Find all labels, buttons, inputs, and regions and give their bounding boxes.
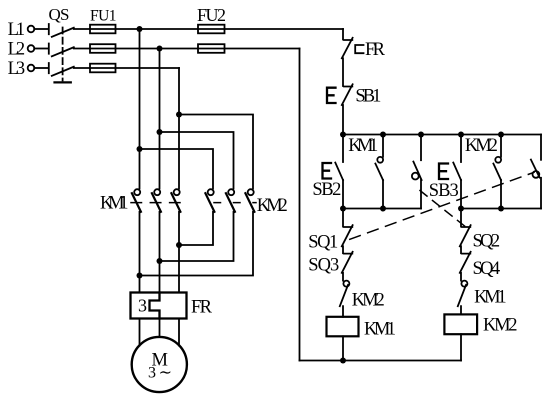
wire motor lead 2 — [159, 319, 161, 338]
switch QS pole 3 — [49, 63, 74, 76]
node crossover p3 — [176, 112, 182, 118]
SB1 actuator E — [327, 88, 336, 103]
svg-text:L3: L3 — [8, 59, 26, 79]
svg-text:KM2: KM2 — [483, 316, 518, 336]
limit switch SQ3 NC contact — [342, 252, 353, 281]
contactor KM2 main contact 2 — [226, 189, 235, 212]
pushbutton SB2 NO branch — [342, 135, 344, 163]
wire L3 row — [74, 67, 179, 69]
svg-text:KM1: KM1 — [348, 136, 378, 156]
limit switch SQ1 NO contact — [531, 160, 541, 209]
wire crossover top to KM2 contact b — [160, 132, 234, 189]
terminal L2 — [28, 45, 35, 52]
wire L2 row — [74, 48, 300, 50]
mechanical link dashed SQ1 — [350, 172, 534, 239]
contact KM2 aux NO — [493, 135, 501, 209]
terminal L1 — [28, 26, 35, 33]
svg-text:3∼: 3∼ — [148, 365, 172, 382]
wire L2 terminal to QS — [34, 48, 48, 50]
wire main drop phase3 — [178, 68, 180, 189]
mechanical link dashed SQ2 — [420, 191, 465, 227]
svg-text:KM1: KM1 — [364, 320, 396, 340]
SB3 actuator E — [439, 164, 448, 180]
svg-text:FU2: FU2 — [197, 5, 226, 25]
wire motor lead 1 — [139, 319, 141, 346]
svg-text:3: 3 — [138, 296, 147, 316]
wire below KM1 contact 2 — [159, 212, 161, 293]
wire below KM1 contact 1 — [139, 212, 141, 293]
node lower p2 — [157, 258, 163, 264]
contactor KM1 main contact 2 — [152, 189, 161, 212]
svg-text:KM2: KM2 — [465, 136, 498, 156]
wire bus corner down right — [540, 135, 542, 160]
contactor KM2 main contact 1 — [205, 189, 214, 212]
pushbutton SB3 NO branch — [460, 135, 462, 163]
node right section a — [458, 206, 464, 212]
node right section b — [498, 206, 504, 212]
node bus 3 — [418, 132, 424, 138]
switch QS pole 2 — [49, 44, 74, 57]
wire crossover bottom KM2 c — [140, 212, 254, 276]
wire FR to SB1 — [342, 58, 344, 86]
wire main drop phase2 — [159, 49, 161, 189]
QS linkage dashed — [62, 28, 64, 81]
interlock KM2 NC contact — [340, 281, 350, 317]
svg-text:KM2: KM2 — [257, 196, 288, 216]
wire SB1 to bus — [342, 105, 344, 135]
svg-text:SQ4: SQ4 — [473, 259, 501, 279]
fuse FU2 phase1 — [198, 25, 225, 34]
wire crossover bottom KM2 a — [179, 212, 213, 245]
node lower p3 — [176, 242, 182, 248]
SB2 actuator E — [323, 163, 332, 179]
motor M circle — [132, 337, 187, 392]
contact KM1 aux NO — [375, 135, 383, 209]
svg-text:L1: L1 — [8, 20, 26, 40]
control left rail from L2 — [299, 49, 301, 361]
SB2 contact blade — [335, 163, 343, 180]
pushbutton SB1 NC — [342, 84, 353, 105]
wire main drop phase1 — [139, 29, 141, 189]
thermal relay FR heater box — [131, 293, 187, 319]
wire SB2 to node — [342, 180, 344, 209]
svg-text:KM1: KM1 — [474, 288, 507, 308]
control bus wire — [343, 134, 541, 136]
wire KM1 coil to rail — [342, 336, 344, 360]
wire control feed down from L1 — [342, 29, 344, 40]
fuse FU1 phase3 — [90, 64, 116, 73]
switch QS pole 1 — [49, 24, 74, 37]
node bus 2 — [380, 132, 386, 138]
node left section a — [340, 206, 346, 212]
svg-text:SQ2: SQ2 — [473, 232, 501, 252]
svg-text:L2: L2 — [8, 40, 26, 60]
junction dots main — [137, 26, 183, 279]
coil KM1 — [327, 317, 359, 337]
limit switch SQ2 NO contact — [412, 135, 422, 209]
contactor KM1 main contact 3 — [171, 189, 180, 212]
wire crossover bottom KM2 b — [160, 212, 234, 261]
FR NC contact — [342, 38, 353, 59]
KM2 main linkage dashed — [214, 202, 256, 204]
svg-text:KM1: KM1 — [100, 194, 129, 214]
svg-text:FU1: FU1 — [90, 7, 117, 24]
bottom rail wire — [300, 360, 462, 362]
wire L1 terminal to QS — [34, 28, 48, 30]
node crossover p1 — [137, 146, 143, 152]
wire motor lead 3 — [178, 319, 180, 346]
node bus 1 — [340, 132, 346, 138]
svg-text:KM2: KM2 — [352, 291, 385, 311]
SB3 contact blade — [453, 163, 461, 180]
fuse FU1 phase1 — [90, 25, 116, 34]
terminal L3 — [28, 65, 35, 72]
wire crossover top to KM2 contact a — [140, 149, 214, 189]
svg-text:SB3: SB3 — [429, 181, 459, 201]
node phase2 tap — [157, 46, 163, 52]
svg-text:FR: FR — [191, 298, 213, 318]
wire SB3 to node — [460, 180, 462, 209]
svg-text:SQ1: SQ1 — [308, 233, 338, 253]
contactor KM1 main contact 1 — [132, 189, 141, 212]
svg-text:SB2: SB2 — [312, 180, 341, 200]
node bottom rail — [340, 358, 346, 364]
FR heater element detour — [150, 293, 160, 319]
node phase1 tap — [137, 26, 143, 32]
fuse FU1 phase2 — [90, 44, 116, 53]
svg-text:SQ3: SQ3 — [308, 256, 339, 276]
node line right section — [461, 208, 541, 210]
interlock KM1 NC contact — [458, 281, 468, 315]
limit switch SQ1 NC contact — [342, 209, 353, 254]
svg-text:FR: FR — [365, 40, 386, 60]
limit switch SQ2 NC contact — [460, 209, 471, 254]
fuse FU2 phase2 — [198, 44, 225, 53]
wire L1 row — [74, 28, 343, 30]
node left section b — [380, 206, 386, 212]
QS handle bar — [55, 81, 71, 83]
wire KM2 coil to rail — [460, 334, 462, 360]
limit switch SQ4 NC contact — [460, 252, 471, 281]
node line left section — [343, 208, 421, 210]
KM1 main linkage dashed — [131, 202, 180, 204]
wire below KM1 contact 3 — [178, 212, 180, 293]
junction dots control — [340, 132, 504, 364]
node lower p1 — [137, 273, 143, 279]
svg-text:SB1: SB1 — [355, 87, 381, 107]
node crossover p2 — [157, 129, 163, 135]
node bus 4 — [458, 132, 464, 138]
node bus 5 — [498, 132, 504, 138]
FR thermal release symbol — [355, 45, 363, 53]
svg-text:QS: QS — [49, 5, 70, 24]
wire L3 terminal to QS — [34, 67, 48, 69]
coil KM2 — [444, 314, 477, 334]
contactor KM2 main contact 3 — [245, 189, 254, 212]
wire crossover top to KM2 contact c — [179, 115, 253, 189]
